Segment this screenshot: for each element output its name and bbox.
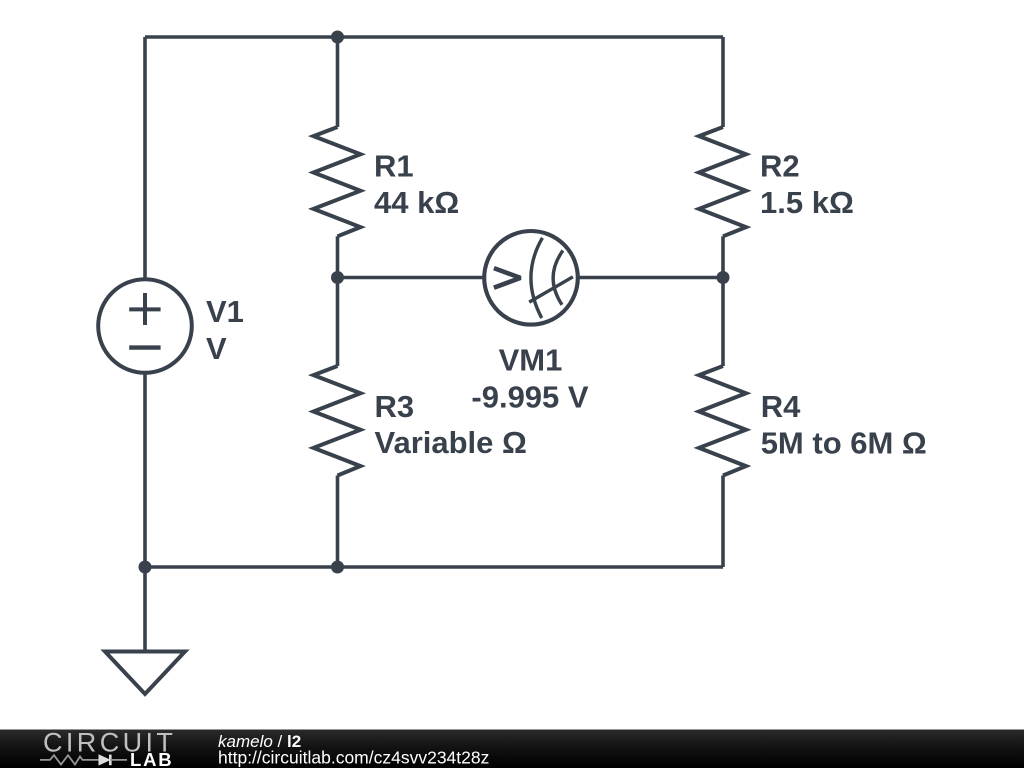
label R3 Variable Ohm: [375, 389, 527, 460]
svg-text:-9.995 V: -9.995 V: [471, 380, 589, 415]
svg-text:R3: R3: [375, 389, 415, 424]
wire R3 top lead: [336, 278, 340, 367]
svg-text:1.5 kΩ: 1.5 kΩ: [760, 185, 854, 220]
svg-text:http://circuitlab.com/cz4svv23: http://circuitlab.com/cz4svv234t28z: [218, 747, 489, 767]
ground: [105, 567, 185, 694]
svg-text:5M to 6M Ω: 5M to 6M Ω: [761, 426, 927, 461]
svg-text:LAB: LAB: [130, 749, 173, 768]
resistor R4: [699, 366, 746, 476]
svg-text:V1: V1: [206, 294, 244, 329]
node dot mid-left (R1/R3/VM1): [331, 271, 344, 284]
svg-text:V: V: [206, 331, 227, 366]
wire left vertical (V1 top lead): [143, 37, 147, 278]
node dot bottom (R3 to bottom wire): [331, 561, 344, 574]
svg-text:Variable Ω: Variable Ω: [375, 425, 527, 460]
wire R1 bottom lead: [336, 236, 340, 277]
svg-text:R4: R4: [761, 389, 801, 424]
label R2 1.5 kOhm: [760, 149, 854, 221]
wire V1 bottom lead: [143, 373, 147, 567]
wire R2 top lead: [721, 37, 725, 127]
wire R1 top lead: [336, 37, 340, 127]
voltmeter VM1: [484, 231, 578, 325]
logo resistor squiggle: [40, 755, 99, 764]
wire mid horizontal right (VM1 to node): [579, 276, 724, 280]
voltage source V1: [98, 279, 192, 373]
wire R4 top lead: [721, 278, 725, 367]
label V1: [206, 294, 244, 366]
wire R3 bottom lead: [336, 476, 340, 568]
svg-text:R2: R2: [760, 149, 800, 184]
resistor R1: [314, 127, 361, 236]
node dot top (R1 to top wire): [331, 31, 344, 44]
label R1 44 kOhm: [374, 149, 459, 221]
label R4 5M to 6M Ohm: [761, 389, 927, 461]
wire bottom horizontal: [145, 565, 723, 569]
logo diode: [99, 755, 127, 766]
footer bar: [0, 730, 1024, 768]
wire R2 bottom lead: [721, 236, 725, 277]
node dot mid-right (R2/R4/VM1): [717, 271, 730, 284]
svg-text:44 kΩ: 44 kΩ: [374, 185, 459, 220]
resistor R3: [314, 366, 361, 476]
svg-text:VM1: VM1: [499, 342, 563, 377]
resistor R2: [699, 127, 746, 236]
wire mid horizontal left (node to VM1): [338, 276, 484, 280]
wire R4 bottom lead: [721, 476, 725, 568]
svg-text:R1: R1: [374, 149, 414, 184]
wire top horizontal: [145, 35, 723, 39]
node dot bottom-left (V1/ground): [139, 561, 152, 574]
label VM1 -9.995 V: [471, 342, 589, 414]
